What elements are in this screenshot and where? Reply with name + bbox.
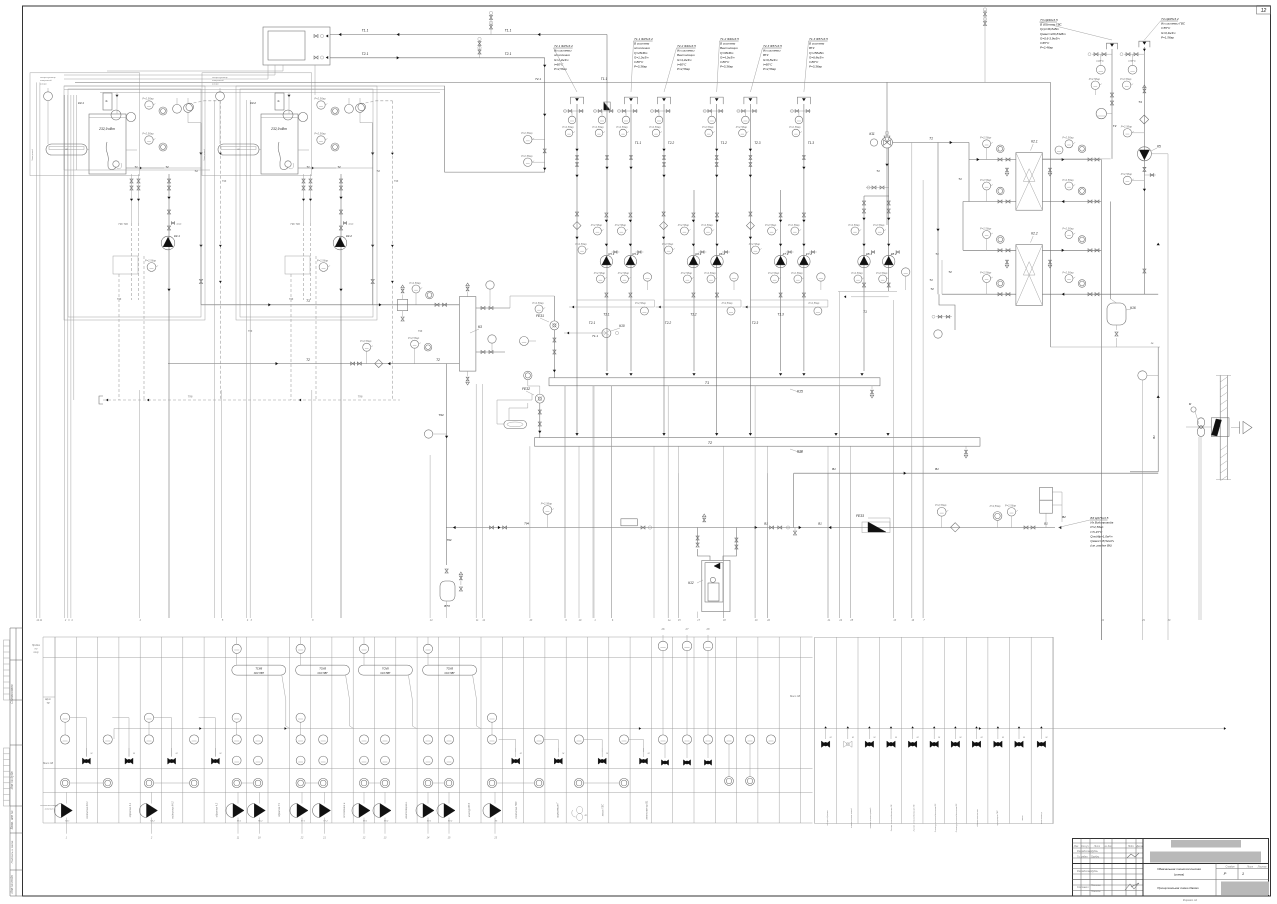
hydraulic separator K3	[459, 283, 482, 385]
panel signal bus	[114, 727, 1226, 739]
svg-text:P=2,5бар: P=2,5бар	[749, 242, 761, 246]
svg-text:G=0,4м3/ч: G=0,4м3/ч	[1161, 31, 1176, 35]
pump group K8.1 K8.2	[838, 148, 910, 371]
expansion tank VT3	[440, 572, 463, 608]
svg-text:Т94: Т94	[524, 522, 529, 526]
automation panel outline	[43, 637, 1053, 824]
svg-text:P=3,3бар: P=3,3бар	[634, 65, 647, 69]
svg-text:К6.1: К6.1	[695, 252, 701, 256]
svg-text:P=2,4бар: P=2,4бар	[1040, 46, 1053, 50]
boiler K1.1 aux box	[113, 256, 158, 301]
svg-text:Т2.3: Т2.3	[754, 141, 761, 145]
svg-text:Т1.3: Т1.3	[777, 313, 784, 317]
svg-text:В систему: В систему	[809, 42, 825, 46]
svg-text:Вент АВ: Вент АВ	[790, 695, 800, 698]
column top T2.2	[649, 97, 674, 145]
svg-text:Т1: Т1	[958, 177, 962, 181]
svg-text:насос: насос	[1022, 815, 1024, 820]
svg-text:№ док: № док	[1104, 845, 1112, 848]
svg-text:P=2,5бар: P=2,5бар	[678, 223, 690, 227]
title block table	[1073, 839, 1269, 897]
svg-text:Дубль: Дубль	[1090, 870, 1099, 873]
svg-text:Т1.2: Т1.2	[721, 141, 728, 145]
left frame strip cells	[10, 628, 23, 896]
svg-text:Согласовано: Согласовано	[10, 684, 14, 704]
svg-text:G=1,2м3/ч: G=1,2м3/ч	[634, 55, 649, 59]
column top T2.1	[562, 97, 584, 137]
automation panel column grid	[55, 637, 1053, 824]
svg-text:М: М	[981, 737, 983, 739]
svg-text:отопление к.: отопление к.	[343, 802, 346, 818]
svg-text:Взам. инв №: Взам. инв №	[10, 810, 14, 829]
svg-text:25: 25	[849, 619, 853, 622]
svg-text:М: М	[852, 737, 854, 739]
svg-text:Т2: Т2	[708, 441, 712, 445]
svg-text:P=2,5бар: P=2,5бар	[702, 125, 714, 129]
svg-text:P=2,5бар: P=2,5бар	[851, 271, 863, 275]
svg-text:Т94: Т94	[447, 538, 452, 542]
top-left control box	[263, 27, 330, 65]
left margin tick table	[4, 640, 10, 806]
svg-text:1 конт. теплообменника ГВ: 1 конт. теплообменника ГВ	[891, 804, 893, 831]
svg-text:2 конт. теплообменника ГВ: 2 конт. теплообменника ГВ	[914, 804, 916, 832]
svg-text:FE31: FE31	[536, 314, 544, 318]
svg-text:P=2,5бар: P=2,5бар	[704, 271, 716, 275]
svg-text:24: 24	[838, 619, 842, 622]
svg-text:подпитка К4.2: подпитка К4.2	[172, 801, 175, 819]
svg-text:ТСМ5: ТСМ5	[319, 667, 326, 670]
svg-text:заданию: заданию	[44, 808, 54, 811]
controller TCM5 no.4	[423, 665, 481, 728]
svg-text:В1: В1	[935, 467, 939, 471]
svg-text:P=2,5бар: P=2,5бар	[662, 242, 674, 246]
svg-text:С=С: С=С	[177, 223, 182, 226]
svg-text:ВТЗ: ВТЗ	[444, 604, 450, 608]
svg-text:23: 23	[529, 619, 533, 622]
panel bottom stub numbers	[66, 837, 498, 840]
boiler pump K4.1	[161, 198, 180, 618]
svg-text:К5.2: К5.2	[632, 252, 638, 256]
svg-text:G=4,2м3/ч: G=4,2м3/ч	[720, 55, 735, 59]
svg-text:М: М	[648, 753, 650, 755]
svg-text:Обвязальная технологическая: Обвязальная технологическая	[1157, 867, 1201, 871]
svg-text:G=0,6-3,9м3/ч: G=0,6-3,9м3/ч	[1040, 36, 1060, 40]
svg-text:t=65°C: t=65°C	[1096, 60, 1104, 63]
svg-text:вентилятор: вентилятор	[1041, 811, 1043, 824]
panel butterfly valves small row	[661, 744, 711, 765]
svg-text:Т2: Т2	[165, 165, 169, 169]
boiler K1.1 gas enclosure	[30, 73, 140, 176]
svg-text:вентиляция к.: вентиляция к.	[405, 801, 408, 818]
system label T2.1	[554, 44, 578, 92]
svg-text:P=2,5бар: P=2,5бар	[142, 97, 154, 101]
svg-text:обратка 4.1: обратка 4.1	[129, 802, 132, 817]
svg-text:М: М	[1045, 737, 1047, 739]
svg-text:Дата: Дата	[1135, 845, 1143, 848]
svg-text:Т96 Т96: Т96 Т96	[290, 222, 300, 226]
svg-text:ТСМ5: ТСМ5	[446, 667, 453, 670]
svg-text:P=2,5бар: P=2,5бар	[618, 271, 630, 275]
boiler K1.2 control box	[250, 93, 290, 114]
svg-text:К16: К16	[1130, 306, 1136, 310]
system label T2.3	[750, 44, 782, 92]
svg-text:М: М	[176, 753, 178, 755]
heat exchanger K2.2	[1016, 232, 1043, 306]
svg-text:общая обратка: общая обратка	[827, 810, 829, 826]
svg-text:Газопровод: Газопровод	[31, 148, 34, 160]
svg-text:Qср=36,8кВт: Qср=36,8кВт	[1040, 27, 1060, 31]
title block texts	[1074, 845, 1267, 902]
expansion tank K16	[1051, 299, 1161, 347]
svg-text:Т96: Т96	[394, 179, 399, 183]
svg-text:Т96: Т96	[418, 329, 423, 333]
svg-text:P=2,5бар: P=2,5бар	[1062, 270, 1074, 274]
duct damper black	[1211, 418, 1229, 437]
header T1 to separator	[126, 112, 459, 321]
title block grey bars	[1150, 840, 1269, 895]
exhaust fan	[1186, 402, 1211, 620]
svg-text:P=2,5бар: P=2,5бар	[765, 223, 777, 227]
boiler K1.2 aux box	[285, 256, 330, 301]
svg-text:P=2,5бар: P=2,5бар	[980, 270, 992, 274]
svg-text:P=1,5бар: P=1,5бар	[1161, 35, 1174, 39]
svg-text:Т94: Т94	[438, 413, 444, 417]
svg-text:P=2,5бар: P=2,5бар	[142, 132, 154, 136]
riser wires middle columns	[577, 36, 804, 434]
svg-text:Щит: Щит	[45, 697, 52, 701]
svg-text:Р: Р	[1224, 871, 1227, 876]
svg-text:Т2.1 Ф25x3.2: Т2.1 Ф25x3.2	[554, 44, 573, 48]
svg-text:газорегулятор: газорегулятор	[40, 77, 56, 79]
svg-text:Инв № подл.: Инв № подл.	[10, 874, 14, 893]
boiler K1.1 top instruments	[111, 97, 192, 170]
svg-text:P=2,5бар: P=2,5бар	[314, 132, 326, 136]
svg-text:Вентиляции: Вентиляции	[677, 53, 695, 57]
svg-text:Q=28кВт: Q=28кВт	[634, 51, 648, 55]
svg-text:Т96 Т96: Т96 Т96	[118, 222, 128, 226]
svg-text:Т2: Т2	[436, 358, 440, 362]
svg-text:Т4: Т4	[1138, 100, 1142, 104]
svg-text:полу: полу	[33, 651, 39, 654]
svg-text:Qмакс=18,52м³/ч: Qмакс=18,52м³/ч	[1090, 539, 1114, 543]
left riser pair top	[37, 82, 40, 100]
svg-text:t=55°C: t=55°C	[1128, 60, 1136, 63]
riser arrows	[575, 149, 805, 178]
svg-text:Т1.3: Т1.3	[808, 141, 815, 145]
svg-text:1 контур теплообменника ВЗ: 1 контур теплообменника ВЗ	[935, 803, 937, 832]
svg-text:открытый: открытый	[40, 79, 52, 82]
svg-text:К6.2: К6.2	[258, 821, 263, 823]
system label T1.3	[804, 37, 828, 92]
panel top sensors	[232, 637, 433, 665]
svg-text:Т2: Т2	[948, 270, 952, 274]
svg-text:P=2,5бар: P=2,5бар	[848, 223, 860, 227]
K2.1 piping	[963, 136, 1101, 204]
svg-text:P=2,5бар: P=2,5бар	[1121, 172, 1133, 176]
svg-text:P=2,5бар: P=2,5бар	[408, 336, 420, 340]
T96 risers between boilers	[186, 100, 423, 618]
svg-text:Т1: Т1	[876, 169, 880, 173]
softener pill tank	[497, 394, 532, 428]
svg-text:Т2.1: Т2.1	[505, 52, 512, 56]
svg-text:газорегулятор: газорегулятор	[212, 77, 228, 79]
boiler K1.2 gas instrument	[212, 77, 228, 144]
manifold T1 (K15)	[549, 373, 880, 398]
svg-text:С=С: С=С	[349, 223, 354, 226]
water softener K12	[688, 528, 738, 612]
system label T1.2	[717, 37, 739, 92]
controller TCM5 no.3	[358, 665, 416, 728]
svg-text:Т1.1: Т1.1	[635, 141, 642, 145]
svg-text:FE33: FE33	[856, 514, 864, 518]
svg-text:P=2,5бар: P=2,5бар	[615, 223, 627, 227]
heat exchanger K2.1	[1016, 140, 1043, 211]
wire B1 feed run	[446, 501, 1061, 535]
svg-text:Из системы: Из системы	[763, 49, 781, 53]
svg-text:обратка 4.2: обратка 4.2	[215, 802, 218, 817]
svg-text:Т1: Т1	[306, 299, 310, 303]
column top T1.1	[616, 97, 641, 145]
svg-text:Лист: Лист	[1093, 845, 1100, 848]
svg-text:P=2,5бар: P=2,5бар	[935, 503, 947, 507]
svg-text:Составил: Составил	[1077, 886, 1089, 889]
sheet corner label 12	[1257, 6, 1271, 15]
meter box B2	[1040, 487, 1066, 527]
svg-text:Т2.2: Т2.2	[668, 141, 675, 145]
controller TCM5 no.2	[296, 665, 354, 728]
svg-text:Т1.1: Т1.1	[601, 77, 608, 81]
svg-text:P=2,5бар: P=2,5бар	[980, 226, 992, 230]
separator right pipes	[476, 281, 555, 354]
svg-text:Т1.3 Ф57x3.5: Т1.3 Ф57x3.5	[809, 37, 828, 41]
svg-text:P=2,5бар: P=2,5бар	[873, 223, 885, 227]
svg-text:Т2.1: Т2.1	[535, 77, 541, 81]
pump group K6.1 K6.2	[656, 212, 741, 317]
svg-text:М: М	[917, 737, 919, 739]
svg-text:Из системы ГВС: Из системы ГВС	[1161, 22, 1186, 26]
svg-text:P=2,5бар: P=2,5бар	[314, 97, 326, 101]
svg-text:Т1: Т1	[863, 310, 867, 314]
pump group K7.1 K7.2	[742, 212, 828, 317]
air vent pair on T2.1	[478, 37, 481, 58]
svg-text:Т3: Т3	[1113, 124, 1117, 128]
svg-text:Орубль: Орубль	[1091, 856, 1100, 859]
svg-text:подпитка К4.1: подпитка К4.1	[86, 801, 89, 819]
svg-text:Т1.1: Т1.1	[592, 334, 598, 338]
flow meter FE31	[520, 296, 559, 378]
svg-text:циркуляция ГВР: циркуляция ГВР	[997, 810, 999, 826]
svg-text:обратка Т1: обратка Т1	[278, 802, 281, 816]
svg-text:P=2,5бар: P=2,5бар	[736, 125, 748, 129]
svg-text:t=80°C: t=80°C	[720, 60, 730, 64]
svg-text:P=2,5бар: P=2,5бар	[616, 125, 628, 129]
svg-text:P=3,3бар: P=3,3бар	[809, 65, 822, 69]
svg-text:К7.2: К7.2	[806, 252, 812, 256]
svg-text:P=2,5бар: P=2,5бар	[1089, 77, 1101, 81]
boiler K1.1 gas instrument	[40, 77, 56, 144]
svg-text:воздух: воздух	[212, 82, 220, 85]
svg-text:Инв № дубл.: Инв № дубл.	[10, 771, 14, 790]
boiler K1.1 drop wires	[119, 223, 144, 400]
panel butterfly valves row1	[82, 748, 649, 764]
svg-text:К2.2: К2.2	[1031, 232, 1038, 236]
svg-text:Т1: Т1	[194, 169, 198, 173]
svg-text:Т2: Т2	[306, 358, 310, 362]
svg-text:(схема): (схема)	[1174, 873, 1184, 877]
HX interconnect wires	[936, 143, 1110, 641]
svg-text:М: М	[959, 737, 961, 739]
flow meter FE32	[522, 371, 544, 438]
svg-text:Qмакс=226,83кВт: Qмакс=226,83кВт	[1040, 32, 1066, 36]
svg-text:насос ГВС: насос ГВС	[602, 804, 605, 816]
svg-text:Т2.2 Ф40x3.5: Т2.2 Ф40x3.5	[677, 44, 696, 48]
svg-text:G=6,8м3/ч: G=6,8м3/ч	[763, 58, 778, 62]
svg-text:Из системы: Из системы	[677, 49, 695, 53]
svg-text:Q=98кВт: Q=98кВт	[720, 51, 734, 55]
svg-text:В систему: В систему	[634, 42, 650, 46]
svg-text:К4.1: К4.1	[174, 234, 180, 238]
svg-text:В1: В1	[818, 522, 822, 526]
boiler K1.2 top instruments	[283, 97, 364, 170]
svg-text:P=2,5бар: P=2,5бар	[701, 223, 713, 227]
svg-text:К3.1: К3.1	[78, 101, 84, 105]
svg-text:В1: В1	[1152, 435, 1156, 439]
svg-text:Листов: Листов	[1257, 865, 1267, 868]
svg-text:Т2.2: Т2.2	[665, 321, 672, 325]
header T2 to separator	[168, 336, 459, 368]
panel right sensors 26-28	[658, 627, 775, 785]
svg-text:Т1: Т1	[705, 381, 709, 385]
svg-text:К3.2: К3.2	[250, 101, 256, 105]
svg-text:G=6,8м3/ч: G=6,8м3/ч	[809, 55, 824, 59]
boiler K1.2 drop wires	[291, 223, 316, 400]
boiler K1.2 burner pill	[218, 144, 261, 155]
panel butterfly link wires	[70, 718, 644, 756]
svg-text:К6.2: К6.2	[719, 252, 725, 256]
svg-text:Т96: Т96	[222, 179, 227, 183]
svg-text:P=2,5бар: P=2,5бар	[541, 501, 553, 505]
svg-text:Лист: Лист	[1246, 865, 1253, 868]
svg-text:P=2,5бар: P=2,5бар	[594, 271, 606, 275]
svg-text:М: М	[606, 753, 608, 755]
air outlet cone	[1231, 421, 1252, 433]
svg-text:Q=158кВт: Q=158кВт	[809, 51, 825, 55]
svg-text:23: 23	[493, 837, 497, 840]
svg-text:P=2,5бар: P=2,5бар	[1120, 77, 1132, 81]
manifold T2 (K16)	[535, 433, 981, 458]
svg-text:М: М	[873, 737, 875, 739]
wire B1 riser	[1130, 347, 1160, 472]
svg-text:ТР: ТР	[46, 701, 50, 705]
boiler K1.1 burner pill	[46, 144, 89, 155]
svg-text:Т2.3 Ф57x3.5: Т2.3 Ф57x3.5	[763, 44, 782, 48]
pipe T1 to heat exchangers	[876, 137, 969, 226]
svg-text:P=2,5бар: P=2,5бар	[521, 154, 533, 158]
system label T2.2	[664, 44, 696, 92]
svg-text:В2: В2	[1062, 515, 1066, 519]
svg-text:t=5-15°C: t=5-15°C	[1090, 530, 1103, 534]
svg-text:К11: К11	[869, 132, 874, 136]
svg-text:СКУ-5ВТ: СКУ-5ВТ	[380, 672, 391, 675]
svg-text:К12: К12	[688, 581, 694, 585]
boiler K1.1 body	[89, 114, 126, 174]
svg-text:P=2,5бар: P=2,5бар	[980, 136, 992, 140]
svg-text:P=2,5бар: P=2,5бар	[791, 271, 803, 275]
panel right butterfly row	[821, 726, 1047, 747]
svg-text:26: 26	[661, 627, 665, 631]
svg-text:t=60°C: t=60°C	[554, 62, 564, 66]
svg-text:Т1: Т1	[935, 252, 939, 256]
svg-text:Т1.1: Т1.1	[505, 29, 512, 33]
svg-text:P=2,5бар: P=2,5бар	[788, 223, 800, 227]
svg-text:Гл. инбел: Гл. инбел	[1077, 856, 1088, 859]
system label T1.1	[631, 37, 653, 92]
svg-text:М: М	[895, 737, 897, 739]
svg-text:P=2,5бар: P=2,5бар	[876, 271, 888, 275]
svg-text:Подп.: Подп.	[1128, 845, 1135, 848]
svg-text:P=2,5бар: P=2,5бар	[635, 302, 646, 305]
panel right rotated labels	[790, 695, 1043, 833]
svg-text:P=2,5бар: P=2,5бар	[677, 67, 690, 71]
svg-text:Новиков: Новиков	[1091, 890, 1101, 893]
svg-text:t=60°C: t=60°C	[677, 62, 687, 66]
svg-text:Т4 Ц#25x3.2: Т4 Ц#25x3.2	[1161, 17, 1179, 21]
wires below manifolds	[565, 386, 923, 618]
svg-text:открытый: открытый	[212, 79, 224, 82]
svg-text:КЗВ: КЗВ	[798, 450, 803, 454]
riser T4 and pump K5	[1120, 41, 1168, 294]
pipe T2.1 top run	[330, 52, 546, 172]
svg-text:P=2,5бар: P=2,5бар	[145, 258, 157, 262]
svg-text:232,9 кВт: 232,9 кВт	[270, 127, 287, 131]
system label T3 (right)	[1040, 18, 1113, 50]
K2.2 piping	[930, 226, 1158, 296]
air vent pair on T1.1	[489, 11, 492, 34]
svg-text:232,9 кВт: 232,9 кВт	[98, 127, 115, 131]
riser index numbers	[36, 619, 1171, 622]
svg-text:t=80°C: t=80°C	[634, 60, 644, 64]
svg-text:М: М	[90, 753, 92, 755]
svg-text:P=2,5бар: P=2,5бар	[1062, 178, 1074, 182]
svg-text:К7.1: К7.1	[783, 252, 789, 256]
svg-text:контур ВТ3: контур ВТ3	[468, 803, 471, 817]
svg-text:Принципиальная схема обвязки: Принципиальная схема обвязки	[1157, 886, 1199, 890]
svg-text:P=2,5бар: P=2,5бар	[1062, 136, 1074, 140]
pump group K5.1 K5.2	[569, 212, 654, 317]
svg-text:P=2,5бар: P=2,5бар	[649, 125, 661, 129]
svg-text:В3 Ц#76x3.5: В3 Ц#76x3.5	[1090, 516, 1108, 520]
system label B3	[1058, 516, 1114, 548]
panel sensor circle rows	[61, 713, 629, 788]
svg-text:В1: В1	[832, 467, 836, 471]
wire B1 upper run	[794, 450, 1158, 528]
svg-text:Изм: Изм	[1074, 845, 1079, 848]
svg-text:t=80°C: t=80°C	[809, 60, 819, 64]
panel fan glyph	[572, 807, 588, 821]
svg-text:P=2,5бар: P=2,5бар	[521, 131, 533, 135]
svg-text:ТСМ5: ТСМ5	[382, 667, 389, 670]
svg-text:Газопровод: Газопровод	[203, 148, 206, 160]
svg-text:Т2.1: Т2.1	[362, 52, 369, 56]
panel pumps row	[54, 792, 501, 833]
riser T3	[1042, 43, 1118, 159]
svg-text:t=65°C: t=65°C	[1040, 41, 1050, 45]
svg-text:К8.1: К8.1	[866, 252, 872, 256]
svg-text:СКУ-5ВТ: СКУ-5ВТ	[254, 672, 265, 675]
panel rotated labels	[86, 800, 649, 819]
svg-text:Т1: Т1	[134, 165, 138, 169]
svg-text:P=2,5бар: P=2,5бар	[789, 125, 801, 129]
